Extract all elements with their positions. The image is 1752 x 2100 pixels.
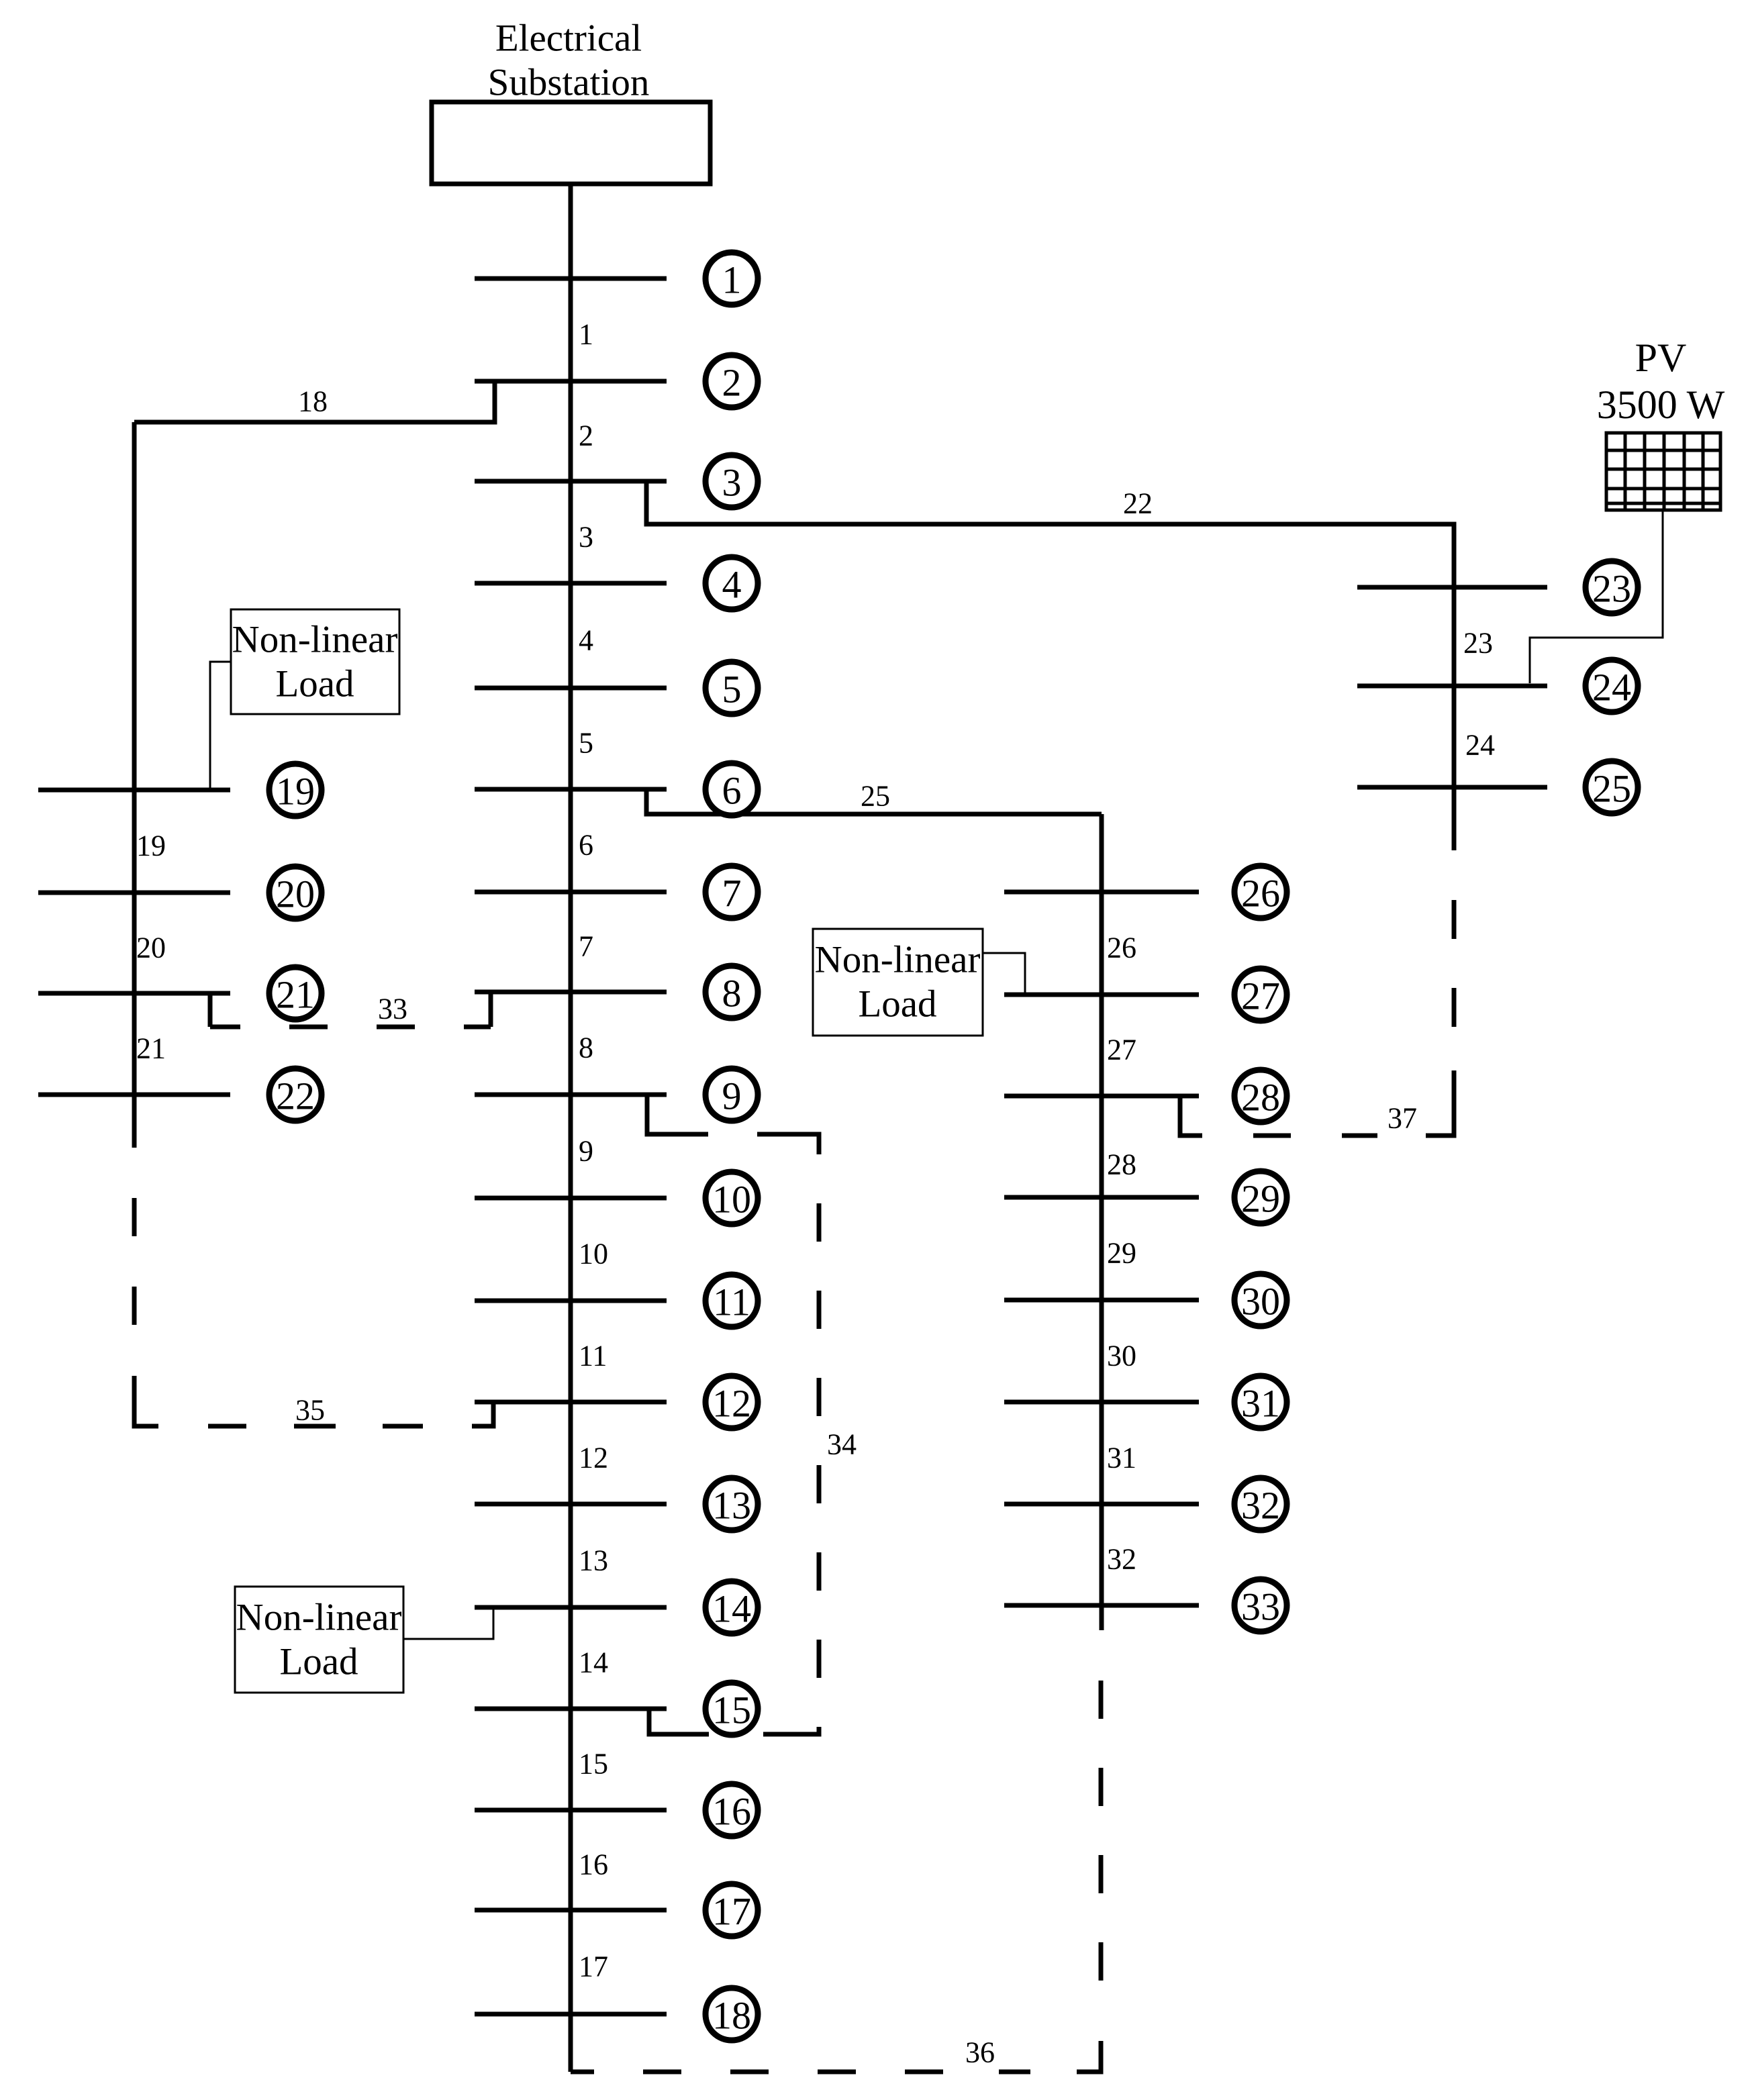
feeder 2 line (buses 26-33): [1100, 814, 1104, 1630]
bus 1 circle: [705, 252, 758, 305]
bus 20 bar: [38, 891, 230, 895]
bus 1 bar: [475, 277, 667, 281]
svg-text:6: 6: [579, 829, 593, 862]
bus 22 bar: [38, 1093, 230, 1097]
bus 10 bar: [475, 1196, 667, 1201]
bus 28 bar: [1004, 1094, 1199, 1099]
bus 31 circle: [1234, 1376, 1287, 1428]
svg-text:18: 18: [712, 1994, 751, 2038]
bus 8 bar: [475, 990, 667, 995]
bus 2 circle: [705, 355, 758, 407]
tie line 34 stub at bus 9: [647, 1095, 708, 1134]
svg-text:Non-linear: Non-linear: [815, 939, 981, 981]
svg-text:3: 3: [579, 521, 593, 554]
PV panel: [1606, 433, 1720, 510]
bus 32 bar: [1004, 1502, 1199, 1507]
tie line 34 stub at bus 15: [649, 1709, 709, 1734]
svg-text:10: 10: [579, 1238, 608, 1270]
svg-text:37: 37: [1388, 1102, 1417, 1135]
svg-text:11: 11: [579, 1340, 607, 1372]
svg-text:34: 34: [827, 1428, 857, 1461]
svg-text:4: 4: [579, 624, 593, 657]
tie line 33 dashed wire: [210, 1025, 491, 1030]
svg-text:9: 9: [722, 1074, 742, 1118]
svg-text:12: 12: [712, 1382, 751, 1426]
svg-text:31: 31: [1241, 1382, 1280, 1426]
bus 12 bar: [475, 1400, 667, 1405]
svg-text:20: 20: [136, 932, 166, 964]
bus 32 circle: [1234, 1478, 1287, 1530]
svg-text:18: 18: [298, 385, 328, 418]
bus 6 bar: [475, 787, 667, 792]
bus 27 circle: [1234, 968, 1287, 1021]
svg-text:Electrical: Electrical: [495, 17, 642, 60]
svg-text:8: 8: [579, 1032, 593, 1064]
svg-text:5: 5: [722, 668, 742, 711]
bus 29 bar: [1004, 1195, 1199, 1200]
non-linear load 1 wire to bus 19: [210, 662, 231, 788]
svg-text:27: 27: [1107, 1034, 1136, 1066]
svg-text:13: 13: [579, 1544, 608, 1577]
bus 8 circle: [705, 966, 758, 1018]
bus 19 bar: [38, 788, 230, 793]
bus 25 bar: [1357, 785, 1547, 790]
bus 27 bar: [1004, 993, 1199, 997]
svg-text:28: 28: [1241, 1076, 1280, 1119]
svg-text:29: 29: [1241, 1177, 1280, 1221]
svg-text:24: 24: [1592, 666, 1631, 709]
bus 20 circle: [269, 866, 322, 919]
svg-text:20: 20: [276, 872, 315, 916]
svg-text:21: 21: [136, 1032, 166, 1065]
bus 15 bar: [475, 1707, 667, 1711]
bus 21 bar: [38, 991, 230, 996]
bus 30 circle: [1234, 1274, 1287, 1326]
svg-text:Load: Load: [275, 663, 354, 705]
line 18 wire (bus 2 to left feeder): [134, 381, 495, 422]
svg-text:29: 29: [1107, 1237, 1136, 1270]
svg-text:16: 16: [579, 1848, 608, 1881]
svg-text:19: 19: [276, 770, 315, 813]
bus 26 circle: [1234, 866, 1287, 918]
svg-text:3500 W: 3500 W: [1597, 383, 1725, 427]
svg-text:15: 15: [712, 1689, 751, 1732]
bus 7 bar: [475, 890, 667, 895]
svg-text:30: 30: [1107, 1340, 1136, 1372]
svg-text:27: 27: [1241, 974, 1280, 1018]
tie line 34 bottom corner dash: [763, 1727, 819, 1734]
bus 24 bar: [1357, 684, 1547, 689]
bus 13 bar: [475, 1502, 667, 1507]
svg-text:9: 9: [579, 1135, 593, 1168]
svg-text:35: 35: [295, 1394, 325, 1427]
tie line 37 dashed horizontal: [1253, 1134, 1377, 1138]
tie line 37 stub at bus 28: [1180, 1096, 1202, 1136]
bus 11 circle: [705, 1274, 758, 1327]
line 22 wire (bus 3 to right feeder): [646, 481, 1454, 850]
svg-text:30: 30: [1241, 1280, 1280, 1323]
tie line 34 dashed vertical: [817, 1203, 822, 1678]
bus 21 circle: [269, 967, 322, 1019]
tie line 36 dashed vertical: [1099, 1681, 1104, 1981]
svg-text:7: 7: [722, 872, 742, 915]
svg-text:33: 33: [1241, 1585, 1280, 1629]
tie line 33 stub at bus 21: [208, 993, 213, 1027]
svg-text:26: 26: [1241, 872, 1280, 915]
tie line 36 corner piece: [1077, 2041, 1101, 2072]
svg-text:8: 8: [722, 972, 742, 1015]
bus 7 circle: [705, 866, 758, 918]
bus 16 circle: [705, 1784, 758, 1836]
svg-text:12: 12: [579, 1442, 608, 1474]
svg-text:2: 2: [722, 361, 742, 405]
bus 3 bar: [475, 479, 667, 484]
non-linear load 2 wire to bus 27: [983, 953, 1025, 993]
svg-text:3: 3: [722, 461, 742, 505]
non-linear load box 3: [235, 1587, 403, 1693]
bus 25 circle: [1586, 761, 1638, 813]
bus 31 bar: [1004, 1400, 1199, 1405]
svg-text:28: 28: [1107, 1148, 1136, 1181]
bus 12 circle: [705, 1376, 758, 1428]
bus 23 circle: [1586, 561, 1638, 613]
bus 33 bar: [1004, 1603, 1199, 1608]
svg-text:36: 36: [965, 2036, 995, 2069]
svg-text:16: 16: [712, 1790, 751, 1834]
bus 26 bar: [1004, 890, 1199, 895]
svg-text:1: 1: [722, 258, 742, 302]
tie line 34 corner dash: [757, 1134, 819, 1154]
svg-text:33: 33: [378, 993, 407, 1026]
svg-text:17: 17: [712, 1890, 751, 1934]
svg-text:21: 21: [276, 973, 315, 1017]
svg-text:PV: PV: [1635, 336, 1687, 380]
non-linear load box 1: [231, 609, 399, 714]
svg-text:23: 23: [1592, 567, 1631, 611]
bus 10 circle: [705, 1172, 758, 1224]
svg-text:31: 31: [1107, 1442, 1136, 1474]
svg-text:Load: Load: [279, 1641, 358, 1683]
svg-text:32: 32: [1241, 1484, 1280, 1528]
svg-text:22: 22: [276, 1074, 315, 1118]
bus 5 circle: [705, 662, 758, 714]
substation label: [488, 17, 650, 104]
bus 19 circle: [269, 764, 322, 816]
bus 18 circle: [705, 1988, 758, 2040]
bus 17 circle: [705, 1884, 758, 1936]
bus 5 bar: [475, 686, 667, 691]
svg-text:17: 17: [579, 1950, 608, 1983]
bus 15 circle: [705, 1683, 758, 1735]
svg-text:Non-linear: Non-linear: [232, 619, 398, 661]
svg-text:7: 7: [579, 930, 593, 963]
bus 29 circle: [1234, 1171, 1287, 1223]
bus 16 bar: [475, 1808, 667, 1813]
bus 33 circle: [1234, 1579, 1287, 1632]
bus 11 bar: [475, 1299, 667, 1303]
bus 22 circle: [269, 1068, 322, 1121]
svg-text:14: 14: [579, 1646, 608, 1679]
svg-text:24: 24: [1465, 729, 1495, 762]
svg-text:22: 22: [1123, 487, 1153, 520]
bus 4 circle: [705, 557, 758, 609]
svg-text:1: 1: [579, 318, 593, 351]
substation box: [432, 102, 710, 184]
bus 24 circle: [1586, 660, 1638, 712]
svg-text:Load: Load: [858, 983, 936, 1026]
bus 4 bar: [475, 581, 667, 586]
left feeder line (buses 19-22): [132, 422, 137, 1148]
svg-text:10: 10: [712, 1178, 751, 1221]
tie line 35 dashed horizontal: [208, 1424, 423, 1429]
bus 13 circle: [705, 1478, 758, 1530]
bus 14 bar: [475, 1605, 667, 1610]
PV label: [1597, 336, 1725, 427]
svg-text:25: 25: [1592, 767, 1631, 811]
svg-text:Substation: Substation: [488, 62, 650, 104]
svg-text:26: 26: [1107, 932, 1136, 964]
svg-text:25: 25: [861, 780, 890, 813]
bus 14 circle: [705, 1581, 758, 1634]
bus 2 bar: [475, 379, 667, 384]
svg-text:19: 19: [136, 830, 166, 862]
svg-text:Non-linear: Non-linear: [236, 1597, 402, 1639]
svg-text:2: 2: [579, 419, 593, 452]
tie line 35 corner piece: [134, 1376, 158, 1426]
PV wire to bus 24: [1530, 510, 1663, 683]
bus 17 bar: [475, 1908, 667, 1913]
svg-text:5: 5: [579, 727, 593, 760]
svg-text:15: 15: [579, 1748, 608, 1781]
non-linear load 3 wire to bus 14: [403, 1607, 493, 1639]
bus 9 bar: [475, 1093, 667, 1097]
svg-text:11: 11: [713, 1281, 750, 1324]
svg-text:4: 4: [722, 563, 742, 607]
feeder 1 main line (substation to bus 18): [569, 184, 573, 2072]
tie line 33 stub at bus 8: [489, 993, 493, 1027]
svg-text:23: 23: [1463, 627, 1493, 660]
bus 18 bar: [475, 2012, 667, 2017]
svg-text:6: 6: [722, 769, 742, 813]
bus 28 circle: [1234, 1070, 1287, 1122]
tie line 37 dashed vertical: [1452, 900, 1457, 1027]
tie line 36 corner at bus 18: [571, 2070, 594, 2074]
bus 3 circle: [705, 455, 758, 507]
tie line 37 corner piece: [1426, 1070, 1454, 1136]
svg-text:32: 32: [1107, 1543, 1136, 1576]
bus 23 bar: [1357, 585, 1547, 590]
tie line 35 stub at bus 12: [472, 1402, 493, 1426]
tie line 35 dashed vertical: [132, 1198, 137, 1325]
svg-text:14: 14: [712, 1587, 751, 1631]
non-linear load box 2: [813, 929, 983, 1036]
bus 6 circle: [705, 763, 758, 815]
bus 9 circle: [705, 1068, 758, 1121]
line 25 wire (bus 6 to feeder 2): [646, 789, 1102, 814]
tie line 36 dashed horizontal: [643, 2070, 1030, 2074]
svg-text:13: 13: [712, 1484, 751, 1528]
bus 30 bar: [1004, 1298, 1199, 1303]
